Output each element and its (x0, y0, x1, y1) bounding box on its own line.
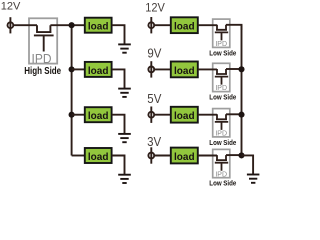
wire: load R3 to U4 drain (198, 114, 217, 116)
svg-text:Low Side: Low Side (209, 50, 236, 57)
load L2 (left row 2) (85, 62, 112, 77)
wire: 3V terminal to load R4 (154, 155, 170, 157)
junction: right bus row 4 (238, 152, 244, 158)
transistor symbol inside U1 (high-side FET) (34, 25, 54, 51)
wire: left vertical bus (71, 25, 73, 155)
wire: 12V terminal to U1 drain (13, 24, 37, 26)
transistor symbol inside U5 (215, 155, 228, 171)
wire: U1 source to left bus (node A) (50, 24, 84, 26)
junction: bus at row 1 (69, 22, 75, 28)
svg-text:load: load (174, 152, 195, 163)
svg-text:9V: 9V (147, 46, 162, 61)
transistor symbol inside U4 (215, 114, 228, 130)
wire: U4 source to right bus (226, 113, 242, 115)
wire: load L2 to ground (112, 69, 125, 88)
svg-text:High Side: High Side (24, 65, 61, 76)
IPD U3 low-side driver box (row 2) (213, 63, 230, 92)
wire: U3 source to right bus (226, 68, 242, 70)
junction: right bus row 2 (238, 66, 244, 72)
svg-text:load: load (174, 66, 195, 77)
load L3 (left row 3) (85, 107, 112, 122)
junction: bus at row 2 (69, 66, 75, 72)
IPD U4 low-side driver box (row 3) (213, 109, 230, 138)
wire: right vertical bus (241, 25, 243, 156)
wire: bus to load L2 (72, 68, 85, 70)
junction: right bus row 3 (238, 112, 244, 118)
supply terminal 5V (right row 3) (148, 107, 154, 123)
svg-text:load: load (174, 111, 195, 122)
svg-text:IPD: IPD (215, 131, 227, 138)
svg-text:load: load (88, 152, 109, 163)
wire: bus to load L3 (72, 114, 85, 116)
wire: U5 source to right bus (226, 154, 242, 156)
load R1 (right row 1) (171, 17, 198, 33)
supply terminal 9V (right row 2) (148, 61, 154, 77)
svg-text:Low Side: Low Side (209, 139, 236, 146)
junction: bus at row 3 (69, 112, 75, 118)
svg-text:IPD: IPD (215, 41, 227, 48)
wire: right bus to system ground (242, 155, 254, 174)
transistor symbol inside U2 (215, 25, 228, 41)
wire: load L1 to ground (112, 25, 125, 44)
ground (left row 3) (118, 134, 131, 142)
load R2 (right row 2) (171, 62, 198, 78)
wire: 12V terminal to load R1 (154, 24, 170, 26)
supply terminal 12V (right row 1) (148, 17, 154, 33)
wire: load L3 to ground (112, 115, 125, 134)
svg-text:12V: 12V (1, 0, 21, 12)
wire: 5V terminal to load R3 (154, 114, 170, 116)
wire: U2 source to right bus corner (226, 25, 242, 30)
ground (system, bottom right) (247, 175, 260, 183)
svg-text:Low Side: Low Side (209, 94, 236, 101)
wire: load L4 to ground (112, 156, 125, 175)
wire: load R4 to U5 drain (198, 155, 217, 157)
ground (left row 2) (118, 89, 131, 97)
IPD U5 low-side driver box (row 4) (213, 149, 230, 178)
svg-text:load: load (88, 66, 109, 77)
svg-text:load: load (174, 22, 195, 33)
load R4 (right row 4) (171, 148, 198, 164)
svg-text:load: load (88, 111, 109, 122)
svg-text:Low Side: Low Side (209, 180, 236, 187)
wire: 9V terminal to load R2 (154, 68, 170, 70)
svg-text:IPD: IPD (215, 171, 227, 178)
svg-text:IPD: IPD (215, 85, 227, 92)
ground (left row 4) (118, 175, 131, 183)
load L1 (left row 1) (85, 18, 112, 33)
supply terminal 3V (right row 4) (148, 147, 154, 163)
IPD U2 low-side driver box (row 1) (213, 19, 230, 48)
wire: bus elbow to load L4 (72, 155, 85, 157)
load L4 (left row 4) (85, 148, 112, 163)
svg-text:12V: 12V (145, 2, 165, 14)
svg-text:3V: 3V (147, 134, 162, 149)
wire: load R1 to U2 drain (198, 24, 217, 26)
svg-text:IPD: IPD (32, 51, 52, 66)
transistor symbol inside U3 (215, 69, 228, 85)
wire: load R2 to U3 drain (198, 68, 217, 70)
ground (left row 1) (118, 44, 131, 52)
IPD U1 high-side driver box (29, 18, 57, 66)
supply terminal 12V (left) (7, 17, 13, 33)
svg-text:5V: 5V (147, 92, 162, 107)
svg-text:load: load (88, 22, 109, 33)
load R3 (right row 3) (171, 107, 198, 123)
